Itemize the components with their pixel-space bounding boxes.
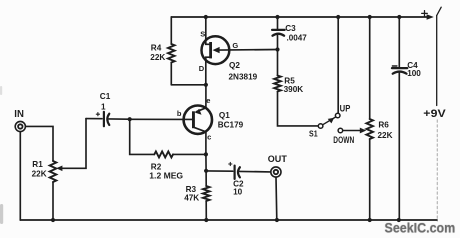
capacitor C4 100 bbox=[398, 17, 400, 68]
svg-text:R4: R4 bbox=[151, 44, 162, 53]
svg-text:Q1: Q1 bbox=[219, 111, 230, 120]
svg-text:b: b bbox=[177, 109, 182, 118]
capacitor C2 10 bbox=[206, 170, 233, 172]
node rail-UP bbox=[336, 15, 340, 19]
svg-text:DOWN: DOWN bbox=[333, 135, 354, 146]
wire collector lead bbox=[195, 128, 206, 132]
wire base lead bbox=[130, 118, 192, 120]
node UP contact bbox=[335, 113, 340, 118]
svg-text:C3: C3 bbox=[285, 24, 296, 33]
wire faint lead below +9V bbox=[436, 120, 438, 221]
svg-text:22K: 22K bbox=[378, 131, 393, 140]
svg-text:22K: 22K bbox=[32, 170, 47, 179]
resistor R5 390K bbox=[277, 50, 279, 76]
capacitor C3 .0047 bbox=[277, 17, 279, 30]
wire top supply rail bbox=[171, 16, 428, 18]
svg-text:S: S bbox=[200, 30, 205, 39]
svg-text:10: 10 bbox=[233, 188, 243, 197]
wire emitter lead bbox=[205, 85, 207, 108]
svg-text:2N3819: 2N3819 bbox=[229, 73, 258, 82]
svg-text:390K: 390K bbox=[284, 85, 304, 94]
svg-text:S1: S1 bbox=[309, 129, 318, 138]
svg-text:R1: R1 bbox=[32, 160, 43, 169]
svg-text:100: 100 bbox=[407, 69, 421, 78]
node rail-R6 bbox=[368, 15, 372, 19]
svg-text:R2: R2 bbox=[151, 162, 162, 171]
wire IN to R1 top bbox=[26, 126, 53, 161]
svg-text:1: 1 bbox=[101, 102, 106, 111]
svg-text:47K: 47K bbox=[184, 193, 199, 202]
node gnd-R6 bbox=[368, 218, 372, 222]
svg-text:+9V: +9V bbox=[423, 108, 446, 120]
resistor R3 47K bbox=[205, 171, 207, 186]
node supply arrow bbox=[427, 14, 434, 20]
wire IN sleeve to ground bbox=[19, 132, 21, 220]
svg-text:C1: C1 bbox=[100, 92, 111, 101]
svg-text:SeekIC.com: SeekIC.com bbox=[385, 221, 456, 236]
node collector-R2 bbox=[204, 152, 208, 156]
wire R5 to switch pole bbox=[278, 92, 319, 126]
node drain-R4-emitter bbox=[204, 83, 208, 87]
resistor R4 22K bbox=[170, 17, 172, 44]
svg-text:e: e bbox=[206, 96, 210, 105]
svg-text:UP: UP bbox=[340, 104, 351, 114]
node + of C1 bbox=[96, 113, 99, 116]
svg-text:BC179: BC179 bbox=[218, 120, 244, 129]
node + of C2 bbox=[229, 162, 232, 165]
resistor R1 22K pot bbox=[50, 161, 57, 182]
transistor Q1 BC179 bbox=[184, 106, 212, 134]
svg-text:G: G bbox=[232, 41, 238, 50]
svg-text:OUT: OUT bbox=[268, 154, 288, 164]
node + mark at supply bbox=[422, 11, 428, 17]
node gnd-C4 bbox=[397, 218, 401, 222]
resistor R6 22K bbox=[369, 17, 371, 119]
wire bottom ground rail bbox=[20, 219, 437, 221]
svg-text:Q2: Q2 bbox=[229, 61, 240, 70]
svg-text:R6: R6 bbox=[378, 120, 389, 129]
wire OUT sleeve to ground bbox=[275, 177, 278, 220]
svg-text:22K: 22K bbox=[150, 53, 165, 62]
transistor Q2 2N3819 bbox=[202, 36, 230, 64]
wire R4 bottom to drain node bbox=[171, 84, 204, 86]
node gate-C3-R5 bbox=[275, 47, 279, 51]
node gnd-R3 bbox=[204, 218, 208, 222]
node C1-base-R2 bbox=[128, 117, 132, 121]
node gnd-OUT bbox=[275, 218, 279, 222]
node rail-C3 bbox=[275, 15, 279, 19]
svg-text:D: D bbox=[199, 64, 205, 73]
node rail-C4 bbox=[397, 15, 401, 19]
node DOWN contact bbox=[338, 128, 343, 133]
wire gate of Q2 bbox=[219, 49, 278, 52]
svg-text:1.2 MEG: 1.2 MEG bbox=[149, 171, 183, 180]
wire R1 wiper to C1 bbox=[56, 166, 62, 172]
switch S1 bbox=[318, 124, 323, 129]
wire DOWN to R6 wiper bbox=[343, 130, 361, 132]
scan smudge bottom-left bbox=[0, 86, 3, 224]
node gnd-R1 bbox=[51, 218, 55, 222]
svg-text:IN: IN bbox=[14, 109, 24, 120]
svg-text:.0047: .0047 bbox=[287, 34, 308, 43]
resistor R2 1.2 MEG bbox=[130, 119, 155, 154]
node collector-C2-R3 bbox=[204, 169, 208, 173]
svg-text:c: c bbox=[207, 132, 211, 141]
node rail-S bbox=[204, 15, 208, 19]
terminal IN jack bbox=[15, 121, 25, 131]
svg-text:R5: R5 bbox=[284, 76, 295, 85]
wire collector to C2/R3 node bbox=[205, 154, 207, 170]
capacitor C1 1 bbox=[86, 118, 102, 120]
wire +9V battery lead bbox=[436, 16, 438, 106]
terminal OUT jack bbox=[271, 167, 281, 177]
